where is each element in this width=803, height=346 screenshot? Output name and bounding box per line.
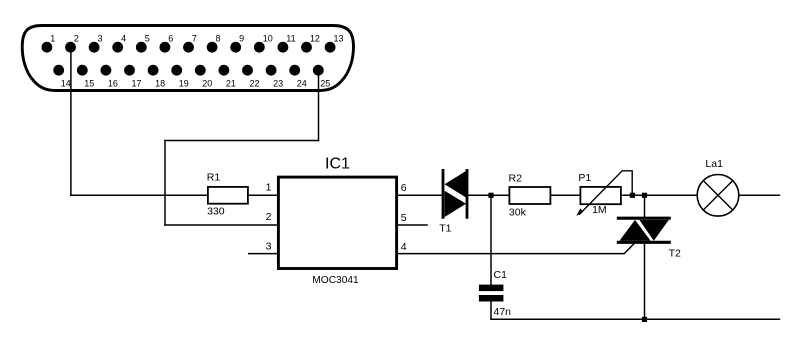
connector pin 20 [195, 65, 212, 89]
junction node B dot [642, 193, 647, 198]
svg-text:6: 6 [401, 182, 407, 194]
wire pin2 horizontal to R1 [71, 194, 207, 196]
svg-text:La1: La1 [705, 158, 723, 170]
svg-text:24: 24 [297, 79, 307, 89]
svg-text:5: 5 [401, 212, 407, 224]
diac T1 upper triangle [445, 171, 466, 198]
wire IC1 pin 5 stub [398, 224, 427, 226]
svg-text:2: 2 [74, 33, 79, 43]
wire node B down through T2 [644, 195, 646, 319]
svg-text:4: 4 [401, 241, 407, 253]
svg-text:47n: 47n [494, 306, 512, 318]
svg-text:7: 7 [192, 33, 197, 43]
potentiometer P1 box [580, 187, 621, 204]
svg-text:P1: P1 [578, 172, 591, 184]
connector pin 1 [42, 33, 56, 52]
capacitor C1 bottom plate [479, 295, 504, 302]
svg-text:21: 21 [226, 79, 236, 89]
wire vertical to IC pin2 [164, 141, 166, 226]
resistor R1 box [208, 187, 248, 204]
svg-text:330: 330 [207, 206, 225, 218]
junction node A dot [488, 193, 493, 198]
connector pin 19 [171, 65, 188, 89]
wire pin2 vertical [70, 47, 72, 195]
svg-text:18: 18 [155, 79, 165, 89]
optocoupler IC1 (MOC3041) box [278, 177, 396, 268]
connector pin 16 [101, 65, 118, 89]
junction node bottom rail dot [642, 317, 647, 322]
wire R2 to P1 [551, 194, 579, 196]
wire node A down to C1 [490, 195, 492, 284]
svg-text:C1: C1 [494, 269, 508, 281]
svg-text:12: 12 [310, 33, 320, 43]
svg-text:15: 15 [84, 79, 94, 89]
triac T2 right triangle [639, 220, 669, 241]
connector pin 21 [219, 65, 236, 89]
svg-text:IC1: IC1 [325, 156, 350, 173]
svg-text:10: 10 [263, 33, 273, 43]
svg-text:8: 8 [216, 33, 221, 43]
connector pin 12 [301, 33, 320, 52]
wire IC1 pin 4 to T2 gate [398, 242, 635, 253]
connector pin 14 [53, 65, 70, 89]
connector pin 5 [136, 33, 150, 52]
wire pin25 vertical [318, 70, 320, 140]
svg-text:22: 22 [250, 79, 260, 89]
connector pin 22 [242, 65, 259, 89]
connector pin 9 [230, 33, 244, 52]
svg-text:6: 6 [168, 33, 173, 43]
triac T2 left triangle [620, 220, 651, 241]
wire bottom rail [491, 318, 780, 320]
wire pin25 horizontal left [165, 140, 319, 142]
connector pin 2 [65, 33, 79, 52]
svg-text:25: 25 [320, 79, 330, 89]
svg-text:1: 1 [266, 182, 272, 194]
connector pin 13 [325, 33, 344, 52]
svg-text:23: 23 [273, 79, 283, 89]
connector pin 6 [160, 33, 174, 52]
capacitor C1 top plate [479, 285, 504, 292]
diac T1 lower triangle [445, 191, 466, 217]
svg-text:1M: 1M [592, 204, 607, 216]
svg-text:13: 13 [334, 33, 344, 43]
connector pin 25 [313, 65, 330, 89]
connector pin 23 [266, 65, 283, 89]
wire IC1 pin 3 stub [249, 253, 278, 255]
connector pin 7 [183, 33, 197, 52]
connector pin 11 [278, 33, 296, 52]
wire T1 to node A [467, 194, 509, 196]
capacitor C1 lower lead [490, 302, 492, 320]
potentiometer P1 arrowhead [576, 208, 583, 216]
connector pin 8 [207, 33, 221, 52]
svg-text:9: 9 [239, 33, 244, 43]
wire lamp La1 to right edge [739, 194, 780, 196]
potentiometer P1 wiper diagonal [580, 171, 633, 215]
svg-text:20: 20 [202, 79, 212, 89]
connector pin 10 [254, 33, 273, 52]
svg-text:3: 3 [266, 241, 272, 253]
svg-text:3: 3 [98, 33, 103, 43]
connector pin 3 [89, 33, 103, 52]
lamp La1 circle [697, 175, 739, 217]
svg-text:19: 19 [179, 79, 189, 89]
resistor R2 box [509, 187, 550, 204]
svg-text:30k: 30k [509, 206, 527, 218]
wire IC1 pin 6 to T1 [398, 194, 442, 196]
svg-text:T2: T2 [669, 248, 681, 260]
connector pin 24 [289, 65, 306, 89]
triac T2 bars [618, 218, 669, 242]
svg-text:5: 5 [145, 33, 150, 43]
svg-text:17: 17 [132, 79, 142, 89]
svg-text:11: 11 [286, 33, 295, 43]
connector X1 DB25 outline [22, 26, 353, 91]
svg-text:MOC3041: MOC3041 [312, 275, 359, 286]
svg-text:4: 4 [121, 33, 126, 43]
svg-text:T1: T1 [439, 223, 451, 235]
wire into IC1 pin 2 [165, 224, 278, 226]
svg-text:2: 2 [266, 211, 272, 223]
connector pin 15 [77, 65, 94, 89]
svg-text:R1: R1 [207, 172, 221, 184]
svg-text:1: 1 [50, 33, 55, 43]
lamp La1 cross [703, 181, 732, 210]
svg-text:16: 16 [108, 79, 118, 89]
connector pin 17 [124, 65, 141, 89]
svg-text:R2: R2 [509, 173, 523, 185]
diac T1 bars [443, 170, 467, 217]
junction node P1 wiper dot [630, 193, 635, 198]
wire P1 to lamp La1 [622, 194, 697, 196]
svg-text:14: 14 [61, 79, 71, 89]
connector pin 4 [112, 33, 126, 52]
wire R1 to IC1 pin 1 [249, 194, 278, 196]
connector pin 18 [148, 65, 165, 89]
